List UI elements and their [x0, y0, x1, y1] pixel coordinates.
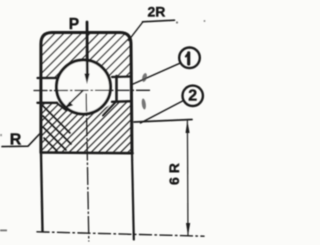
- svg-text:2: 2: [188, 88, 197, 105]
- svg-text:6R: 6R: [166, 159, 182, 185]
- svg-text:2R: 2R: [148, 4, 166, 20]
- svg-text:P: P: [69, 16, 79, 33]
- svg-text:R: R: [10, 132, 22, 149]
